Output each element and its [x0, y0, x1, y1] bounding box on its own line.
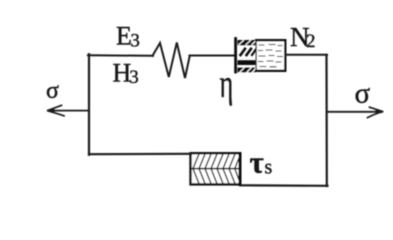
wire: bottom-right horizontal — [241, 184, 328, 187]
wire: right vertical — [325, 55, 327, 186]
svg-text:s: s — [265, 157, 273, 179]
friction slider block tau_s (chevron hatched) — [191, 153, 241, 184]
wire: bottom-left horizontal — [89, 153, 191, 156]
svg-text:σ: σ — [46, 78, 59, 104]
stress arrow right (sigma) — [327, 107, 384, 117]
dashpot N2: hatched piston block — [238, 40, 256, 72]
wire: spring to dashpot — [190, 55, 236, 57]
svg-text:τ: τ — [250, 145, 264, 180]
dashpot N2: piston end plate (left vertical bar) — [234, 39, 237, 73]
spring E3/H3 (zigzag) — [153, 43, 190, 79]
dashpot N2: cylinder with fluid (dashes) — [256, 40, 285, 71]
wire: left vertical (between top-left and bottom-left corners) — [88, 54, 90, 155]
wire: top-left horizontal segment to spring — [88, 54, 153, 57]
wire: dashpot to top-right corner — [286, 54, 328, 56]
stress arrow left (sigma) — [48, 105, 90, 115]
svg-text:η: η — [220, 63, 234, 107]
svg-text:σ: σ — [355, 77, 371, 109]
